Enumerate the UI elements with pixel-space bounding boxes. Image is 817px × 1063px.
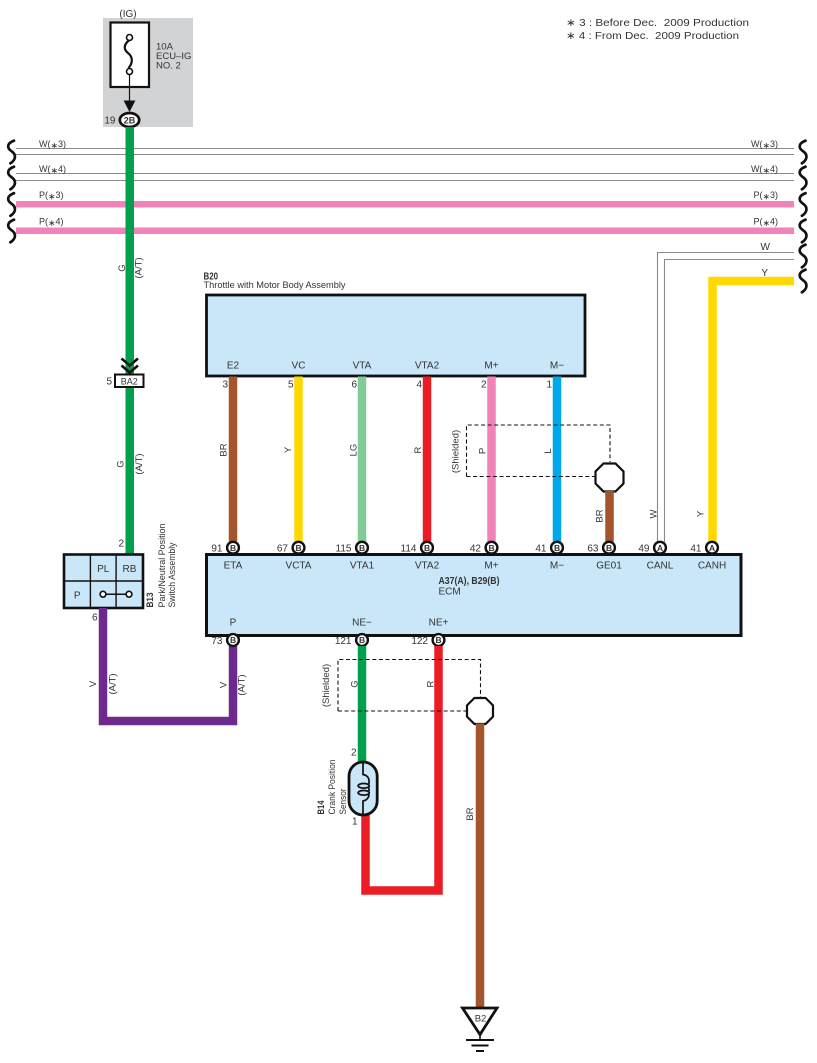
- svg-text:67: 67: [277, 544, 289, 555]
- svg-text:NE−: NE−: [352, 618, 372, 629]
- svg-text:W(∗4): W(∗4): [39, 164, 66, 175]
- svg-text:V: V: [219, 681, 230, 688]
- svg-text:(Shielded): (Shielded): [451, 430, 462, 473]
- svg-text:VTA: VTA: [353, 361, 372, 372]
- svg-text:(A/T): (A/T): [134, 453, 145, 474]
- svg-text:M−: M−: [550, 361, 564, 372]
- svg-text:Crank Position: Crank Position: [327, 760, 338, 815]
- svg-text:E2: E2: [227, 361, 240, 372]
- svg-text:P: P: [230, 618, 237, 629]
- svg-text:41: 41: [535, 544, 547, 555]
- svg-text:VTA2: VTA2: [415, 561, 440, 572]
- svg-text:B13: B13: [145, 593, 156, 608]
- svg-text:L: L: [543, 448, 554, 453]
- svg-text:(A/T): (A/T): [134, 257, 145, 278]
- svg-text:W(∗3): W(∗3): [751, 139, 778, 150]
- svg-text:42: 42: [470, 544, 482, 555]
- svg-text:∗ 4 : From Dec. 2009 Producti: ∗ 4 : From Dec. 2009 Production: [566, 30, 739, 42]
- svg-text:122: 122: [411, 636, 428, 647]
- svg-text:A37(A), B29(B): A37(A), B29(B): [439, 576, 500, 587]
- svg-text:M+: M+: [484, 361, 498, 372]
- svg-text:M−: M−: [550, 561, 564, 572]
- svg-text:ETA: ETA: [224, 561, 243, 572]
- svg-text:6: 6: [92, 613, 98, 624]
- svg-text:B2: B2: [475, 1014, 487, 1025]
- svg-text:P(∗3): P(∗3): [39, 190, 64, 201]
- svg-text:W: W: [761, 242, 771, 253]
- svg-text:(A/T): (A/T): [236, 674, 247, 695]
- svg-text:Sensor: Sensor: [338, 789, 349, 815]
- svg-text:NO. 2: NO. 2: [156, 61, 181, 72]
- svg-text:P(∗3): P(∗3): [753, 190, 778, 201]
- svg-text:CANL: CANL: [647, 561, 674, 572]
- svg-text:(Shielded): (Shielded): [321, 664, 332, 707]
- svg-text:115: 115: [336, 544, 352, 555]
- svg-text:5: 5: [288, 380, 294, 391]
- svg-text:Y: Y: [696, 510, 707, 517]
- svg-text:G: G: [350, 680, 361, 687]
- svg-text:CANH: CANH: [698, 561, 726, 572]
- svg-text:49: 49: [638, 544, 650, 555]
- svg-text:P: P: [74, 591, 81, 602]
- svg-text:PL: PL: [97, 564, 110, 575]
- svg-text:VTA1: VTA1: [350, 561, 375, 572]
- svg-text:6: 6: [351, 380, 357, 391]
- svg-text:BR: BR: [465, 807, 476, 820]
- svg-text:91: 91: [211, 544, 223, 555]
- svg-text:(A/T): (A/T): [108, 673, 119, 694]
- svg-text:19: 19: [104, 116, 116, 127]
- svg-text:GE01: GE01: [596, 561, 622, 572]
- svg-text:Y: Y: [761, 268, 768, 279]
- svg-text:V: V: [88, 680, 99, 687]
- svg-text:B14: B14: [316, 800, 327, 815]
- svg-text:Switch Assembly: Switch Assembly: [167, 542, 178, 607]
- svg-text:W(∗4): W(∗4): [751, 164, 778, 175]
- svg-text:5: 5: [106, 376, 112, 387]
- svg-text:1: 1: [352, 817, 358, 828]
- svg-text:ECM: ECM: [439, 587, 461, 598]
- svg-text:BR: BR: [595, 509, 606, 522]
- svg-text:VTA2: VTA2: [415, 361, 440, 372]
- svg-text:63: 63: [587, 544, 599, 555]
- svg-text:LG: LG: [348, 444, 359, 457]
- svg-text:2: 2: [118, 539, 124, 550]
- svg-text:∗ 3 : Before Dec. 2009 Produc: ∗ 3 : Before Dec. 2009 Production: [566, 17, 749, 29]
- svg-text:(IG): (IG): [119, 9, 136, 20]
- svg-text:4: 4: [416, 380, 422, 391]
- svg-text:BA2: BA2: [121, 376, 138, 386]
- svg-text:BR: BR: [219, 443, 230, 456]
- svg-text:P(∗4): P(∗4): [753, 217, 778, 228]
- svg-text:VC: VC: [292, 361, 306, 372]
- svg-text:121: 121: [335, 636, 352, 647]
- svg-text:P(∗4): P(∗4): [39, 217, 64, 228]
- svg-text:2: 2: [351, 748, 357, 759]
- svg-text:P: P: [478, 448, 489, 454]
- svg-text:W: W: [648, 509, 659, 518]
- svg-text:2: 2: [481, 380, 487, 391]
- svg-text:NE+: NE+: [429, 618, 449, 629]
- svg-text:Throttle with Motor Body Assem: Throttle with Motor Body Assembly: [204, 280, 346, 291]
- svg-text:RB: RB: [123, 564, 137, 575]
- svg-text:G: G: [116, 460, 127, 467]
- svg-text:1: 1: [546, 380, 552, 391]
- svg-text:41: 41: [690, 544, 702, 555]
- svg-text:73: 73: [211, 636, 223, 647]
- svg-text:3: 3: [222, 380, 228, 391]
- svg-text:R: R: [426, 680, 437, 687]
- svg-text:G: G: [117, 264, 128, 271]
- svg-text:2B: 2B: [124, 116, 136, 126]
- svg-text:Y: Y: [283, 446, 294, 453]
- svg-text:VCTA: VCTA: [286, 561, 312, 572]
- svg-text:M+: M+: [484, 561, 498, 572]
- svg-text:W(∗3): W(∗3): [39, 139, 66, 150]
- svg-text:R: R: [413, 446, 424, 453]
- svg-text:114: 114: [401, 544, 417, 555]
